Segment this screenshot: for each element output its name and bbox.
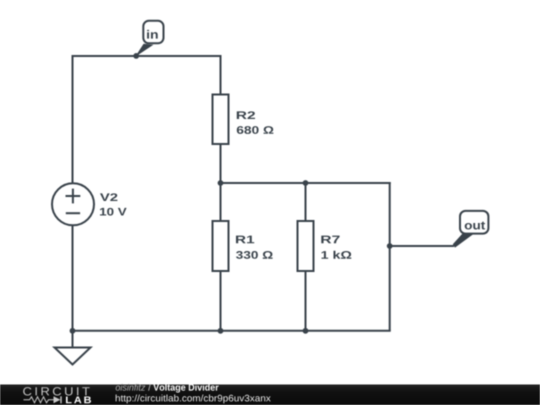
wire R1 bottom stub	[220, 271, 222, 331]
wire R2 top stub	[220, 55, 222, 95]
wire bottom horizontal ground net	[73, 330, 391, 332]
resistor R2	[213, 95, 229, 145]
wire right vertical	[389, 182, 391, 331]
net flag in text	[147, 30, 158, 39]
footer title Voltage Divider	[153, 384, 218, 393]
wire left vertical V2 bottom	[72, 225, 74, 331]
label R1 value 330 ohm	[236, 251, 273, 259]
node junction R1 bottom	[218, 328, 224, 334]
logo resistor zigzag	[24, 397, 54, 403]
net flag out tail	[453, 234, 474, 248]
resistor R7	[298, 221, 314, 271]
net flag in tail	[135, 44, 153, 57]
node junction R7 top	[303, 180, 309, 186]
wire R7 top stub	[305, 183, 307, 221]
node junction at out flag	[387, 243, 393, 249]
node junction at in flag	[133, 53, 139, 59]
wire R2 bottom stub	[220, 144, 222, 183]
footer author oisinfitz	[116, 384, 146, 391]
label R2 designator	[237, 111, 255, 119]
label V2 designator	[100, 193, 117, 201]
wire R7 bottom stub	[305, 271, 307, 331]
wire left vertical V2 top	[72, 55, 74, 184]
wire R1 top stub	[220, 183, 222, 221]
node junction R7 bottom	[303, 328, 309, 334]
label R2 value 680 ohm	[237, 126, 274, 134]
wire middle horizontal node out	[221, 182, 391, 184]
node junction R2 bottom / R1 top	[218, 180, 224, 186]
voltage source V2	[52, 183, 94, 225]
label R7 value 1 kohm	[322, 251, 352, 259]
ground	[55, 331, 91, 365]
footer url	[116, 395, 271, 404]
node junction at ground	[70, 328, 76, 334]
logo LAB wordmark	[66, 396, 91, 403]
resistor R1	[213, 221, 229, 271]
label V2 value 10 V	[100, 208, 127, 216]
logo CIRCUIT wordmark	[23, 387, 89, 395]
wire top horizontal net in	[73, 55, 221, 57]
net flag out text	[465, 222, 485, 230]
label R1 designator	[236, 236, 254, 244]
footer separator slash	[148, 384, 151, 391]
net flag in box	[143, 21, 163, 44]
logo diode bar	[60, 396, 62, 403]
logo diode symbol	[54, 396, 61, 403]
wire out flag stub	[390, 245, 454, 247]
net flag out box	[460, 211, 488, 234]
label R7 designator	[321, 236, 339, 244]
